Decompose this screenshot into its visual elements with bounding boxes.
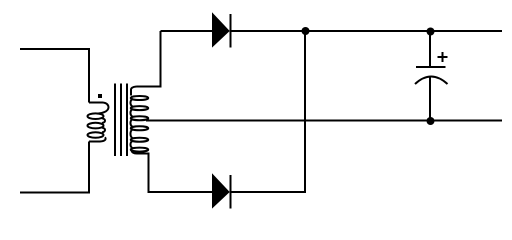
capacitor C1 negative plate arc bbox=[415, 77, 448, 85]
diode D2 triangle bbox=[213, 175, 230, 208]
transformer T1 secondary link 4-5 bbox=[130, 130, 132, 139]
transformer T1 primary turn 1 bbox=[88, 113, 104, 119]
capacitor C1 plus sign horizontal bbox=[438, 56, 448, 58]
diode D2 cathode bar bbox=[230, 175, 232, 209]
transformer T1 phase dot bbox=[98, 94, 102, 98]
transformer T1 secondary bottom lead curve bbox=[132, 151, 137, 154]
transformer T1 core line 3 bbox=[126, 84, 128, 157]
wire center tap rail bbox=[146, 120, 502, 122]
transformer T1 secondary turn 5 bbox=[131, 138, 148, 142]
wire AC input bottom bbox=[20, 142, 89, 193]
transformer T1 secondary turn 3 bbox=[131, 116, 148, 120]
junction dot riser/top rail bbox=[302, 27, 310, 35]
capacitor C1 positive plate bbox=[416, 66, 446, 68]
wire riser bbox=[304, 31, 306, 192]
wire bottom diode cathode to riser bbox=[231, 191, 306, 193]
transformer T1 secondary turn 4 bbox=[131, 126, 148, 130]
transformer T1 secondary turn 2 bbox=[131, 106, 148, 110]
wire AC input top bbox=[20, 49, 89, 103]
transformer T1 primary turn 3 bbox=[88, 132, 104, 138]
transformer T1 secondary turn 6 bbox=[131, 148, 148, 152]
capacitor C1 plus sign vertical bbox=[442, 52, 444, 62]
wire top rail bbox=[231, 30, 502, 32]
transformer T1 secondary link 3-4 bbox=[130, 119, 132, 126]
wire top diode anode bbox=[161, 30, 214, 32]
transformer T1 secondary bottom lead bbox=[137, 154, 213, 193]
transformer T1 core line 2 bbox=[120, 84, 122, 157]
transformer T1 secondary turn 1 bbox=[131, 96, 148, 100]
transformer T1 core line 1 bbox=[114, 84, 116, 157]
transformer T1 secondary top lead bbox=[137, 31, 161, 87]
transformer T1 secondary top lead curve bbox=[131, 87, 137, 96]
transformer T1 primary link 2-3 bbox=[102, 128, 105, 133]
junction dot capacitor bottom bbox=[427, 117, 435, 125]
transformer T1 primary turn 2 bbox=[88, 123, 104, 129]
junction dot capacitor top bbox=[427, 28, 435, 36]
transformer T1 secondary link 2-3 bbox=[130, 109, 132, 116]
transformer T1 primary bottom lead bbox=[89, 137, 106, 141]
wire capacitor bottom bbox=[429, 78, 431, 122]
transformer T1 secondary link 5-6 bbox=[130, 141, 132, 148]
wire capacitor top bbox=[429, 31, 431, 68]
transformer T1 primary top lead bbox=[89, 103, 108, 114]
transformer T1 secondary link 1-2 bbox=[130, 99, 132, 106]
diode D1 cathode bar bbox=[230, 14, 232, 48]
diode D1 triangle bbox=[213, 14, 230, 47]
transformer T1 primary link 1-2 bbox=[102, 118, 105, 123]
